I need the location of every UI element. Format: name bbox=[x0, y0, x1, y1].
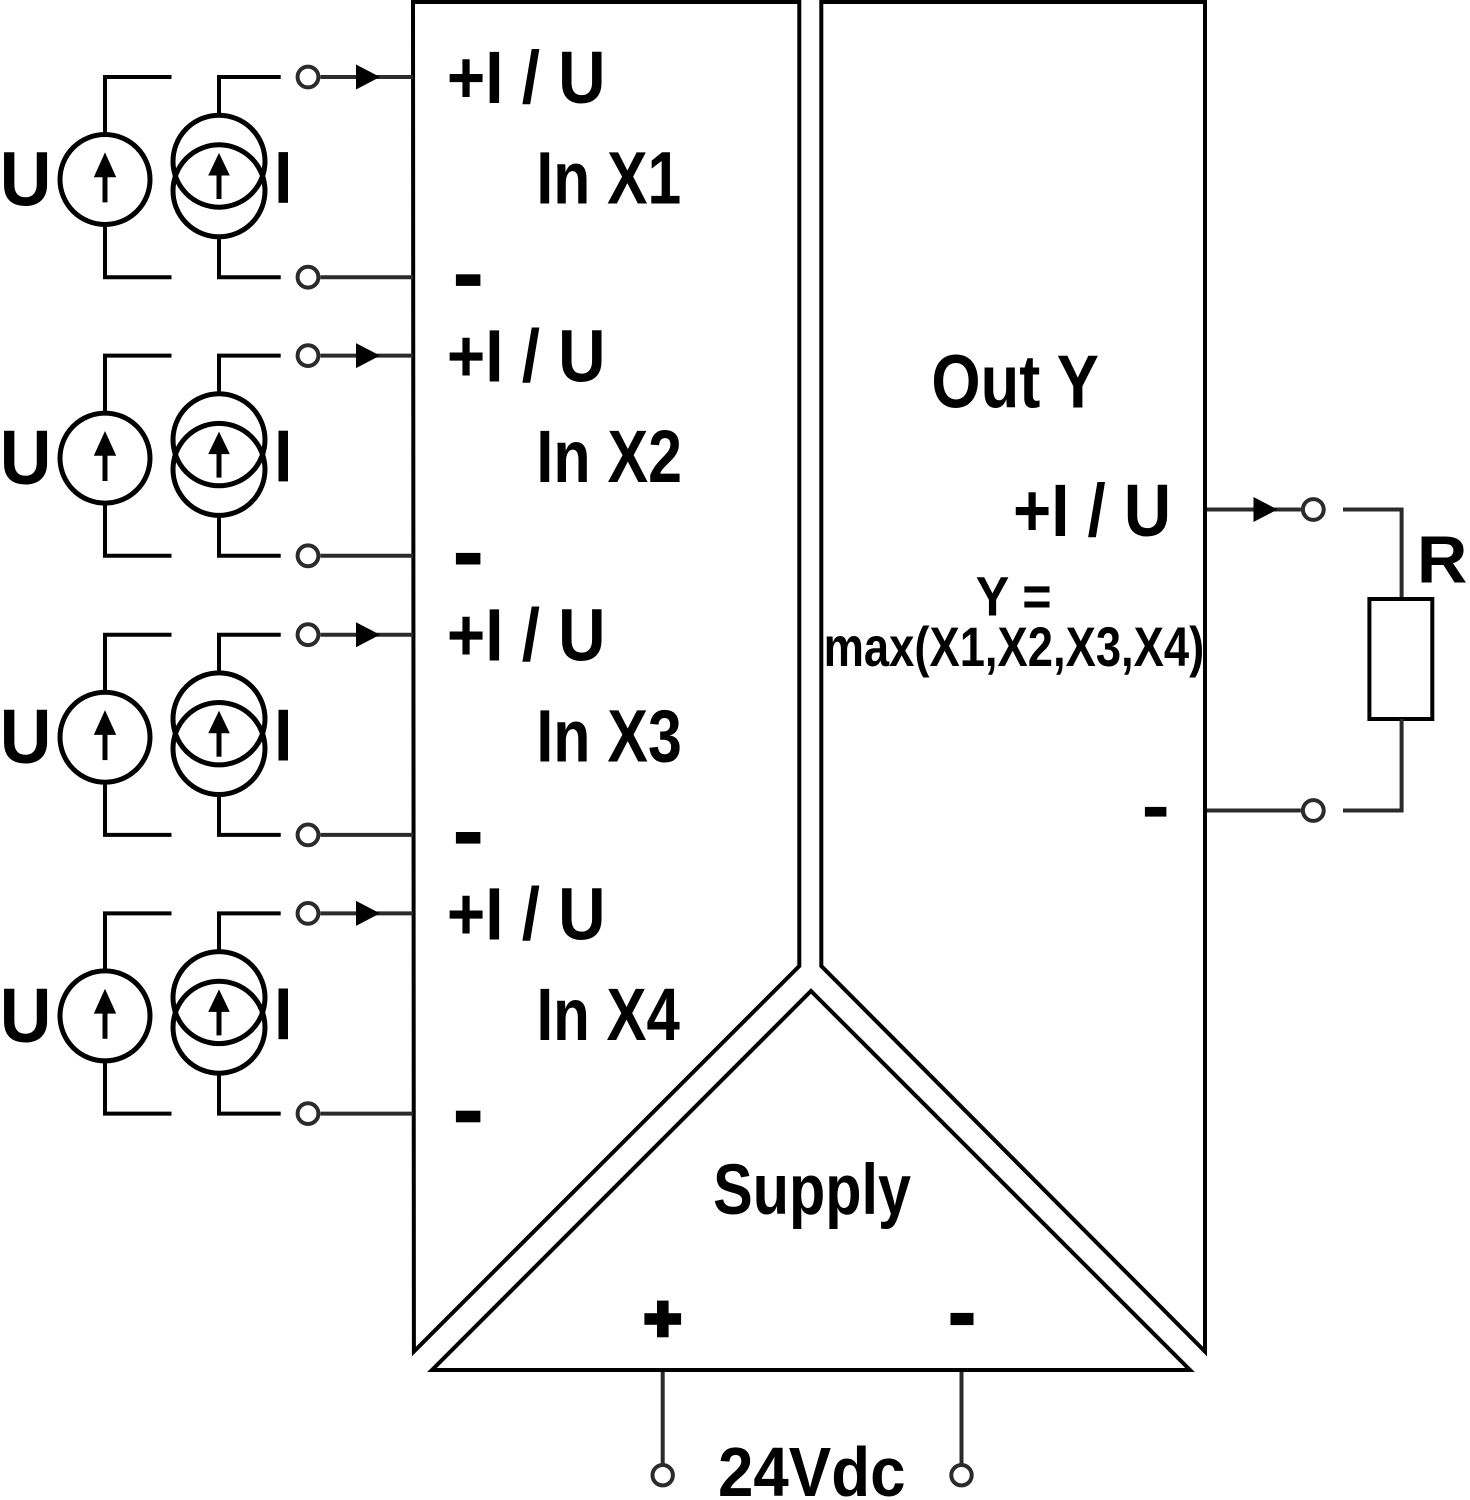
arrowhead (input X3) bbox=[356, 622, 380, 647]
wire: I source top bracket (input X2) bbox=[219, 356, 281, 394]
wire: U source bottom bracket (input X3) bbox=[105, 782, 172, 835]
svg-text:R: R bbox=[1417, 523, 1468, 598]
wire: output minus terminal to resistor bbox=[1343, 719, 1402, 811]
pin label minus (input X2) bbox=[456, 553, 481, 565]
current source I (input X4) bbox=[173, 952, 265, 1074]
label I (input X2) bbox=[279, 431, 289, 482]
arrowhead (output plus) bbox=[1254, 497, 1278, 522]
resistor R bbox=[1369, 599, 1432, 719]
terminal +I/U (input X1) bbox=[298, 67, 319, 88]
svg-text:U: U bbox=[0, 137, 51, 223]
svg-text:max(X1,X2,X3,X4): max(X1,X2,X3,X4) bbox=[824, 615, 1205, 678]
wire: I source bottom bracket (input X2) bbox=[219, 515, 281, 555]
current source I (input X2) bbox=[173, 394, 265, 516]
wire: terminal to block with arrow (input X1 plus) bbox=[321, 75, 414, 79]
wire: terminal to block (input X3 minus) bbox=[321, 833, 414, 837]
wire: terminal to block with arrow (input X4 plus) bbox=[321, 911, 414, 915]
label I (input X4) bbox=[279, 989, 289, 1040]
terminal minus (input X3) bbox=[298, 825, 319, 846]
wire: I source bottom bracket (input X4) bbox=[219, 1073, 281, 1113]
voltage source U (input X4) bbox=[60, 971, 150, 1061]
wire: output plus from block to terminal bbox=[1207, 508, 1301, 512]
svg-text:Out Y: Out Y bbox=[931, 340, 1099, 424]
voltage source U (input X1) bbox=[60, 135, 150, 225]
arrowhead (input X1) bbox=[356, 65, 380, 90]
pin label minus (input X1) bbox=[456, 274, 481, 286]
wire: supply plus stub bbox=[661, 1372, 665, 1465]
wire: U source top bracket (input X3) bbox=[105, 635, 172, 693]
svg-text:+I / U: +I / U bbox=[1013, 469, 1171, 552]
wire: U source top bracket (input X1) bbox=[105, 77, 172, 135]
pin label minus (output) bbox=[1145, 807, 1167, 817]
terminal +I/U (input X2) bbox=[298, 345, 319, 366]
svg-text:U: U bbox=[0, 415, 51, 501]
terminal +I/U (output) bbox=[1303, 499, 1324, 520]
svg-text:Supply: Supply bbox=[713, 1151, 911, 1230]
wire: I source bottom bracket (input X3) bbox=[219, 795, 281, 835]
pin label supply minus bbox=[951, 1313, 974, 1325]
svg-text:+I / U: +I / U bbox=[447, 594, 606, 677]
svg-text:+I / U: +I / U bbox=[447, 36, 606, 119]
wire: terminal to block (input X2 minus) bbox=[321, 554, 414, 558]
svg-text:U: U bbox=[0, 973, 51, 1059]
svg-text:In X1: In X1 bbox=[536, 137, 681, 220]
output function block Out Y bbox=[821, 2, 1205, 1352]
pin label minus (input X3) bbox=[456, 832, 481, 844]
pin label minus (input X4) bbox=[456, 1111, 481, 1123]
wire: U source bottom bracket (input X1) bbox=[105, 225, 172, 278]
wire: U source top bracket (input X4) bbox=[105, 913, 172, 971]
current source I (input X3) bbox=[173, 673, 265, 795]
svg-text:24Vdc: 24Vdc bbox=[718, 1433, 906, 1500]
wire: I source top bracket (input X3) bbox=[219, 635, 281, 673]
wire: I source top bracket (input X4) bbox=[219, 913, 281, 951]
terminal +I/U (input X4) bbox=[298, 903, 319, 924]
wire: I source top bracket (input X1) bbox=[219, 77, 281, 115]
current source I (input X1) bbox=[173, 115, 265, 237]
terminal minus (input X1) bbox=[298, 267, 319, 288]
label I (input X3) bbox=[279, 710, 289, 761]
wire: U source bottom bracket (input X2) bbox=[105, 503, 172, 556]
terminal +I/U (input X3) bbox=[298, 624, 319, 645]
svg-text:+I / U: +I / U bbox=[447, 315, 606, 398]
input function block In X1..X4 bbox=[413, 2, 799, 1352]
wire: terminal to block with arrow (input X3 plus) bbox=[321, 633, 414, 637]
terminal supply plus bbox=[653, 1465, 673, 1485]
wire: U source bottom bracket (input X4) bbox=[105, 1061, 172, 1114]
wire: terminal to block (input X4 minus) bbox=[321, 1112, 414, 1116]
arrowhead (input X2) bbox=[356, 343, 380, 368]
svg-text:In X2: In X2 bbox=[536, 415, 682, 498]
svg-text:U: U bbox=[0, 694, 51, 780]
svg-text:In X4: In X4 bbox=[537, 973, 680, 1056]
terminal minus (output) bbox=[1303, 800, 1324, 821]
wire: terminal to block with arrow (input X2 plus) bbox=[321, 354, 414, 358]
voltage source U (input X2) bbox=[60, 413, 150, 503]
svg-text:+I / U: +I / U bbox=[447, 872, 606, 955]
supply block triangle bbox=[432, 991, 1190, 1370]
terminal minus (input X4) bbox=[298, 1103, 319, 1124]
wire: terminal to block (input X1 minus) bbox=[321, 275, 414, 279]
wire: I source bottom bracket (input X1) bbox=[219, 237, 281, 277]
terminal supply minus bbox=[951, 1465, 971, 1485]
svg-text:In X3: In X3 bbox=[536, 694, 681, 777]
wire: supply minus stub bbox=[960, 1372, 964, 1465]
label I (input X1) bbox=[279, 152, 289, 203]
terminal minus (input X2) bbox=[298, 545, 319, 566]
wire: output plus terminal to resistor bbox=[1343, 510, 1402, 600]
arrowhead (input X4) bbox=[356, 901, 380, 926]
voltage source U (input X3) bbox=[60, 692, 150, 782]
pin label supply plus bbox=[644, 1301, 681, 1338]
wire: U source top bracket (input X2) bbox=[105, 356, 172, 414]
wire: output minus from block to terminal bbox=[1207, 809, 1301, 813]
